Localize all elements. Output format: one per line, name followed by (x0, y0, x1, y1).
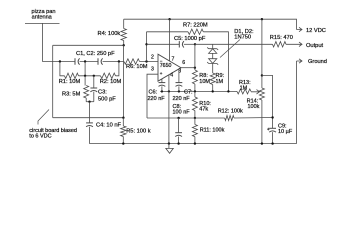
antenna stem wire (41, 23, 43, 61)
svg-text:R2: 10M: R2: 10M (100, 79, 122, 85)
node rail pin4 (168, 90, 170, 92)
node C5 left (145, 43, 147, 45)
circuit board outline top edge (53, 44, 124, 46)
row2 right link wire (116, 62, 119, 76)
capacitor C1 (74, 58, 76, 64)
svg-text:+: + (160, 71, 163, 76)
R11 top lead wire (194, 118, 196, 125)
row1 wire C2-node (103, 61, 124, 63)
capacitor C7 (176, 82, 183, 84)
bias line B wire (147, 117, 195, 119)
C7 bottom stub wire (178, 86, 180, 91)
svg-text:R5: 100 k: R5: 100 k (126, 128, 151, 134)
Output arrow (286, 42, 302, 46)
svg-text:1N750: 1N750 (234, 35, 251, 41)
Ground arrow (297, 59, 303, 63)
R13 wiper arrow (251, 90, 260, 94)
R3 bottom lead wire (85, 98, 87, 102)
circuit board callout pointer (38, 110, 49, 125)
12V top rail (124, 19, 297, 29)
resistor R2 (101, 73, 116, 78)
pin 6 output wire (181, 67, 195, 69)
D1 D2 callout line (220, 40, 240, 58)
R12 left wire (195, 117, 225, 119)
svg-text:R15: 470: R15: 470 (270, 35, 293, 41)
pot top lead wire (261, 76, 263, 89)
svg-text:7650: 7650 (160, 63, 172, 69)
node rail gnd sym (168, 142, 170, 144)
svg-text:220 nF: 220 nF (173, 96, 191, 102)
diode D2 1N750 zener (209, 59, 217, 64)
output node vertical wire (194, 44, 196, 67)
resistor R10 (192, 97, 197, 111)
node pin7 rail (168, 18, 170, 20)
R7 left wire (147, 31, 189, 33)
node C5 right (194, 43, 196, 45)
node pot top (261, 74, 263, 76)
node rail C7 (178, 90, 180, 92)
C8 top lead wire (178, 118, 180, 133)
diode top wire (212, 44, 214, 48)
R3-C3 junction wire (86, 101, 94, 103)
node row2 C3 tap (93, 75, 95, 77)
R9 bottom lead wire (212, 85, 214, 92)
bottom ground rail (90, 143, 297, 145)
capacitor C9 (269, 127, 276, 129)
svg-text:12 VDC: 12 VDC (306, 28, 326, 34)
node rail C6 (161, 90, 163, 92)
svg-text:100k: 100k (248, 104, 260, 110)
R5 bottom lead wire (122, 137, 124, 144)
svg-text:3: 3 (151, 66, 154, 72)
ground symbol (166, 144, 174, 154)
output feedback row wire (195, 43, 273, 45)
svg-text:C3:: C3: (98, 89, 107, 95)
resistor R7 (188, 29, 203, 34)
svg-text:C1, C2: 250 pF: C1, C2: 250 pF (76, 51, 115, 57)
pin 3 wire (147, 74, 158, 118)
svg-text:6: 6 (182, 60, 185, 66)
C6 bottom stub wire (161, 86, 163, 91)
node 12V drop (261, 18, 263, 20)
12V drop wire (261, 19, 263, 75)
feedback rail wire (160, 90, 237, 92)
capacitor C8 (175, 132, 182, 134)
node C8 tap (177, 117, 179, 119)
resistor R13 (237, 89, 251, 94)
C9 bottom lead wire (272, 132, 274, 144)
circuit board outline left edge (52, 45, 54, 117)
input row1 wire (42, 61, 75, 63)
svg-text:to 6 VDC: to 6 VDC (29, 134, 51, 140)
row2 left link wire (60, 62, 65, 76)
node rail R11 (194, 142, 196, 144)
C8 bottom lead wire (178, 137, 180, 144)
resistor R3 (84, 86, 89, 99)
svg-text:R11: 100k: R11: 100k (200, 128, 225, 134)
R8 bottom lead wire (194, 84, 196, 91)
svg-text:C7:: C7: (184, 89, 193, 95)
svg-text:R6: 10M: R6: 10M (126, 64, 148, 70)
bias vertical wire plane (123, 45, 125, 117)
C5 right wire (184, 43, 195, 45)
node bias divider (194, 117, 196, 119)
node rail R14 (261, 142, 263, 144)
R4 top lead wire (123, 19, 125, 28)
C4 top lead wire (89, 118, 91, 123)
node R4-plane top (123, 44, 125, 46)
node plane bottom (122, 117, 124, 119)
pot bottom lead wire (261, 100, 263, 144)
node rail R5 (122, 142, 124, 144)
C3 top lead wire (93, 76, 95, 88)
resistor R5 (121, 126, 126, 137)
node row1 mid (84, 60, 86, 62)
svg-text:R1: 10M: R1: 10M (59, 79, 81, 85)
ground return wire (296, 61, 298, 144)
svg-text:500 pF: 500 pF (98, 96, 116, 102)
R6 right lead wire (140, 61, 159, 63)
R10 top lead wire (194, 91, 196, 97)
potentiometer R14 (259, 88, 264, 100)
node rail R8 (194, 90, 196, 92)
svg-text:C5: 1000 pF: C5: 1000 pF (174, 36, 206, 42)
pin 8 stub wire (178, 69, 180, 83)
resistor R15 (273, 42, 287, 47)
capacitor C4 (86, 122, 93, 124)
node rail R9 (212, 90, 214, 92)
row2 mid wire (79, 75, 101, 77)
node R3C3 junction (88, 101, 90, 103)
R12 right wire (234, 117, 273, 120)
R5 top lead wire (122, 118, 124, 126)
svg-text:10 µF: 10 µF (278, 129, 293, 135)
svg-text:47k: 47k (199, 106, 208, 112)
svg-text:4: 4 (170, 73, 173, 79)
C3 bottom lead wire (93, 92, 95, 102)
svg-text:7: 7 (172, 56, 175, 62)
R10 bottom lead wire (194, 111, 196, 119)
svg-text:−: − (160, 58, 163, 63)
R7 right wire (203, 32, 228, 92)
junction to plane wire (89, 102, 91, 118)
R3 top lead wire (84, 76, 86, 86)
resistor R8 (192, 70, 197, 84)
node row2 R3 tap (84, 75, 86, 77)
resistor R11 (192, 125, 197, 137)
node R12-C9 (271, 116, 273, 118)
node rail C9 (271, 142, 273, 144)
svg-text:220 nF: 220 nF (148, 96, 166, 102)
svg-text:R3: 5M: R3: 5M (62, 92, 81, 98)
12 VDC arrow (297, 27, 303, 31)
node row1 right (118, 60, 120, 62)
C4 bottom lead wire (89, 127, 91, 144)
resistor R9 (210, 73, 215, 85)
C5 left wire (147, 43, 180, 45)
node output (194, 67, 196, 69)
C9 branch wire (262, 76, 273, 129)
svg-text:Ground: Ground (308, 59, 327, 65)
node rail C8 (177, 142, 179, 144)
circuit board outline bottom edge (53, 117, 124, 119)
svg-text:R7: 220M: R7: 220M (183, 23, 208, 29)
diode mid wire (212, 53, 214, 58)
svg-text:R4: 100k: R4: 100k (98, 31, 121, 37)
svg-text:10M: 10M (199, 79, 210, 85)
capacitor C2 (97, 58, 99, 64)
diode D1 1N750 zener (207, 47, 218, 50)
capacitor C3 (90, 87, 97, 89)
row1-row2 mid link wire (84, 62, 86, 76)
R8 top lead wire (194, 68, 196, 70)
C6 top stub wire (161, 79, 163, 83)
svg-text:C4: 10 nF: C4: 10 nF (96, 122, 122, 128)
svg-text:C6:: C6: (149, 90, 158, 96)
capacitor C6 (159, 82, 166, 84)
resistor R1 (65, 73, 79, 78)
row1 wire C1-C2 (80, 61, 98, 63)
capacitor C5 (178, 41, 180, 47)
node rail R7 (227, 90, 229, 92)
pin4 rail to ground wire (168, 91, 170, 143)
pin 4 wire (168, 75, 170, 92)
pin2 feedback vertical wire (146, 32, 148, 62)
op-amp U1 7650 triangle (158, 54, 181, 81)
svg-text:antenna: antenna (32, 15, 53, 21)
svg-text:1M: 1M (216, 79, 224, 85)
antenna bar (25, 22, 60, 24)
diode bottom wire (212, 63, 214, 73)
svg-text:100 nF: 100 nF (173, 110, 191, 116)
node pin2 (145, 60, 147, 62)
resistor R6 (124, 59, 140, 64)
node row1 left (59, 60, 61, 62)
pin 7 wire (169, 19, 171, 61)
R4 bottom lead wire (123, 41, 125, 46)
resistor R12 (225, 116, 234, 121)
svg-text:R12: 100k: R12: 100k (218, 108, 243, 114)
R11 bottom lead wire (194, 137, 196, 144)
resistor R4 (121, 29, 126, 41)
svg-text:2: 2 (151, 54, 154, 60)
svg-text:1M: 1M (240, 85, 248, 91)
svg-text:Output: Output (306, 43, 323, 49)
